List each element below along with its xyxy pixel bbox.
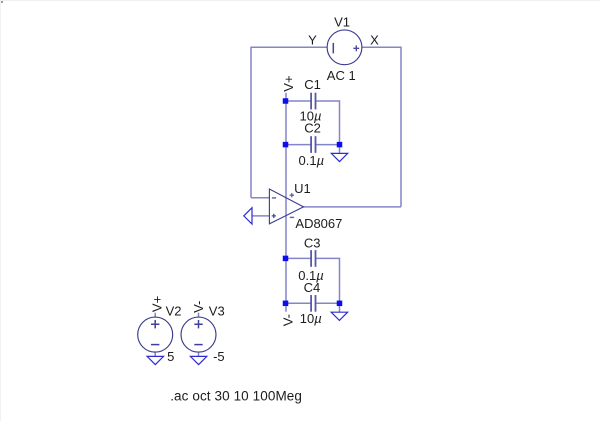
V3 plus mark <box>194 320 202 328</box>
U1 V+ power pin mark <box>290 193 294 197</box>
svg-text:V1: V1 <box>334 14 350 29</box>
capacitor C3 plates <box>311 250 315 267</box>
svg-text:C4: C4 <box>304 280 321 295</box>
wire top-right horizontal (V1 to node X) <box>362 46 401 48</box>
svg-text:V-: V- <box>191 301 206 313</box>
voltage source V1 circle <box>327 30 362 65</box>
wire C4 right <box>316 302 340 304</box>
U1 inverting input mark <box>272 197 276 199</box>
U1 V- power pin mark <box>290 216 294 218</box>
wire ground stub under C2 right node <box>339 145 341 154</box>
wire right vertical (X down to output) <box>400 47 402 207</box>
svg-text:U1: U1 <box>294 181 311 196</box>
wire ground stub under C4 right node <box>339 303 341 312</box>
window corner mark <box>1 1 3 3</box>
wire left vertical (Y down to U1 inverting input) <box>250 47 252 198</box>
op-amp U1 triangle <box>269 189 303 224</box>
ground at U1 non-inverting input (rotated left) <box>244 208 252 224</box>
junction node C2 left <box>283 142 289 148</box>
svg-text:.ac oct 30 10 100Meg: .ac oct 30 10 100Meg <box>170 389 302 404</box>
wire V2 top stub to V+ label <box>154 313 156 318</box>
U1 non-inverting input mark <box>272 214 276 218</box>
voltage source V2 circle <box>138 317 173 352</box>
wire C3 left <box>286 257 311 259</box>
wire right vertical C1 to C2 <box>339 100 341 144</box>
wire V3 top stub to V- label <box>198 313 200 318</box>
wire C1 left <box>286 100 311 102</box>
svg-text:X: X <box>370 33 379 48</box>
svg-text:V3: V3 <box>209 304 225 319</box>
wire C1 right to corner <box>316 100 340 102</box>
svg-text:AD8067: AD8067 <box>295 216 342 231</box>
wire V+ rail vertical (V+ label through C1 C2 rows and U1 to V- label) <box>285 93 287 312</box>
ground under V3 <box>190 356 206 364</box>
wire C2 left <box>286 144 311 146</box>
svg-text:5: 5 <box>167 349 174 364</box>
wire V2 bottom ground stub <box>154 352 156 357</box>
svg-text:-5: -5 <box>213 349 225 364</box>
svg-text:10µ: 10µ <box>300 311 322 326</box>
wire top-left horizontal (node Y to V1) <box>251 46 327 48</box>
svg-text:V-: V- <box>280 314 295 326</box>
svg-text:AC 1: AC 1 <box>327 68 356 83</box>
capacitor C1 plates <box>311 93 315 110</box>
svg-text:V+: V+ <box>150 296 165 312</box>
svg-text:C1: C1 <box>304 77 321 92</box>
svg-text:V2: V2 <box>166 304 182 319</box>
junction node at V+ (C1 left) <box>283 98 289 104</box>
wire inverting input stub <box>251 197 269 199</box>
capacitor C2 plates <box>311 136 315 153</box>
junction node C4 left (V-) <box>283 301 289 307</box>
V2 plus mark <box>151 320 159 328</box>
svg-text:Y: Y <box>308 33 317 48</box>
svg-text:V+: V+ <box>281 75 296 91</box>
V2 minus mark <box>151 344 159 346</box>
capacitor C4 plates <box>311 295 315 312</box>
junction node C4 right (ground) <box>337 301 343 307</box>
ground under V2 <box>147 356 163 364</box>
ground under C4 right node <box>331 312 347 320</box>
wire output horizontal (U1 out to right vertical) <box>304 206 402 208</box>
wire C4 left <box>286 302 311 304</box>
svg-text:0.1µ: 0.1µ <box>299 153 325 168</box>
svg-text:C3: C3 <box>304 235 321 250</box>
junction node C3 left <box>283 256 289 262</box>
wire C3 right to corner <box>316 257 340 259</box>
V1 minus mark (rotated) <box>332 43 334 54</box>
junction node C2 right (ground) <box>337 142 343 148</box>
V3 minus mark <box>194 344 202 346</box>
voltage source V3 circle <box>181 317 216 352</box>
ground under C2 right node <box>331 153 347 161</box>
svg-text:C2: C2 <box>304 121 321 136</box>
wire V3 bottom ground stub <box>198 352 200 357</box>
wire C2 right <box>316 144 340 146</box>
V1 plus mark <box>353 45 359 51</box>
wire non-inverting input stub <box>252 215 269 217</box>
wire right vertical C3 to C4 <box>339 258 341 304</box>
